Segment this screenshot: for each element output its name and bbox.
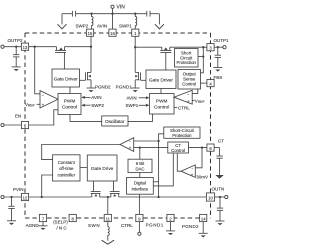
- node: SWN junction: [107, 196, 109, 198]
- wire: SWP2 pin down to switch node and NMOS: [90, 36, 92, 72]
- ground (bar) below PGND2: [199, 222, 208, 238]
- wire: gate driver to PWM (right): [160, 89, 162, 94]
- ground (arrow) below SWN inductor: [102, 240, 114, 244]
- op-amp A1 (right error amp): [174, 90, 192, 104]
- svg-text:15: 15: [88, 31, 93, 36]
- pin 14 PGND2: [200, 214, 207, 221]
- pin 16 AVIN: [109, 29, 116, 36]
- ground (bar) below OUTP2 cap: [12, 67, 21, 71]
- svg-text:Digital: Digital: [134, 181, 146, 186]
- EN terminal: [1, 123, 22, 126]
- svg-text:+: +: [191, 172, 194, 177]
- wire: rail between bottom NMOS pair: [100, 196, 111, 198]
- svg-text:PGND1: PGND1: [146, 223, 164, 228]
- svg-text:off-time: off-time: [59, 166, 74, 171]
- svg-text:Gate Drive: Gate Drive: [91, 166, 114, 171]
- svg-text:AVIN: AVIN: [127, 96, 137, 101]
- svg-text:VREF: VREF: [195, 99, 205, 105]
- SWP2 arrow into left PWM: [81, 104, 90, 107]
- svg-text:CT: CT: [218, 138, 224, 143]
- pin 11 SWN: [104, 214, 111, 221]
- svg-text:Protection: Protection: [172, 133, 192, 138]
- SWP1 arrow into right PWM: [139, 104, 150, 107]
- ground (bar) below PVIN cap: [7, 221, 16, 225]
- svg-text:FBS: FBS: [214, 75, 223, 80]
- AVIN arrow into right PWM: [139, 96, 150, 99]
- svg-text:SWP1: SWP1: [126, 103, 139, 108]
- pin 6 CT: [207, 144, 214, 151]
- OUTP1 terminal: [214, 46, 226, 49]
- capacitor C-in right: [147, 11, 150, 17]
- ground PGND2 (bar): [87, 88, 96, 92]
- svg-text:OUTP2: OUTP2: [8, 38, 24, 43]
- svg-text:14: 14: [201, 216, 206, 221]
- IC boundary dashed box: [25, 33, 211, 218]
- CTRL net stub (right PWM): [174, 106, 177, 108]
- transistor P1 (high-side PMOS right): [160, 47, 171, 70]
- capacitor C-in left: [72, 11, 75, 17]
- VIN terminal: [111, 5, 114, 14]
- wire: CT control to CT pin: [189, 147, 207, 149]
- pin 12 PVIN: [21, 193, 28, 200]
- node: OUTN cap junction: [219, 196, 221, 198]
- svg-text:Constant: Constant: [58, 160, 76, 165]
- svg-text:Control: Control: [62, 105, 77, 110]
- comparator A3 (off-time comparator): [120, 138, 134, 152]
- svg-text:PWM: PWM: [156, 99, 168, 104]
- ground PGND1 (bar): [131, 88, 140, 92]
- capacitor C-outn: [217, 197, 223, 221]
- node: DAC tap on plus input: [139, 146, 141, 148]
- wire: Vref stub: [37, 103, 41, 105]
- pin 5 EN: [21, 121, 28, 128]
- pin 2 PGND1: [167, 214, 174, 221]
- svg-text:SWP1: SWP1: [119, 24, 132, 29]
- node: PVIN cap junction: [10, 196, 12, 198]
- pin 1 SWP1: [132, 29, 139, 36]
- node: minus input junction on OUTN sense line: [157, 140, 159, 142]
- PWM control U2 (left): [58, 94, 81, 115]
- wire: comparator output to constant off-time controller: [42, 145, 120, 160]
- svg-text:SWN: SWN: [88, 223, 100, 228]
- svg-text:Control: Control: [182, 81, 196, 86]
- node: SWP2 switch node: [90, 46, 92, 48]
- oscillator U5: [102, 116, 128, 126]
- pin 8 SELP/NC: [69, 214, 76, 221]
- wire: top input rail: [62, 13, 159, 15]
- output sense control U8: [178, 70, 201, 90]
- node: rail junction at SWP2 inductor: [90, 13, 92, 15]
- svg-text:PGND2: PGND2: [182, 224, 199, 229]
- svg-text:-: -: [42, 92, 44, 98]
- capacitor C-ct external: [214, 148, 223, 175]
- transistor N3 (bottom left NMOS): [91, 181, 101, 197]
- svg-text:Control: Control: [171, 148, 185, 153]
- wire: oscillator to right PWM: [128, 114, 153, 121]
- wire: OUTP2 rail inside: [29, 46, 91, 48]
- wire: DAC to digital interface: [139, 173, 141, 178]
- OUTP2 terminal: [1, 45, 22, 48]
- ground (bar) below PGND1: [166, 222, 175, 236]
- svg-text:CTRL: CTRL: [178, 105, 190, 110]
- constant off-time controller U11: [53, 155, 80, 181]
- wire: OUTP1 tap down to output sense: [201, 47, 204, 73]
- wire: CTRL pin up to digital interface: [138, 194, 140, 214]
- ground (bar) below AGND: [39, 222, 48, 230]
- svg-text:Protection: Protection: [177, 60, 197, 65]
- node: OUTP1 cap junction: [217, 46, 219, 48]
- wire: digital interface to OUTN sense vertical: [153, 181, 158, 183]
- svg-text:-: -: [188, 92, 190, 98]
- wire: FBS to output sense control: [201, 82, 207, 84]
- pin 9 CTRL: [136, 214, 143, 221]
- svg-text:+: +: [187, 99, 190, 104]
- wire: output sense to error amp - input: [192, 89, 198, 94]
- op-amp A2 (left error amp): [40, 91, 58, 108]
- wire: SCP to tap: [198, 56, 203, 58]
- capacitor C-outp2: [13, 47, 19, 67]
- capacitor C-pvin: [8, 197, 14, 221]
- wire: OUTN sense vertical (SCP to OUTN rail): [159, 134, 164, 197]
- node: OUTP1 sense tap: [202, 46, 204, 48]
- ground (bar) below OUTN cap: [216, 221, 225, 225]
- svg-text:PGND1: PGND1: [116, 84, 133, 89]
- svg-text:OUTN: OUTN: [212, 187, 225, 192]
- svg-text:PWM: PWM: [64, 99, 76, 104]
- pin 15 SWP2: [86, 29, 93, 36]
- svg-text:6 Bit: 6 Bit: [136, 161, 145, 166]
- svg-text:AVIN: AVIN: [97, 23, 107, 28]
- wire: OUTP1 rail inside: [135, 46, 207, 48]
- gate driver U3 (left): [52, 69, 80, 87]
- transistor N2 (low-side NMOS left): [80, 72, 92, 88]
- node: SCP tap: [202, 55, 204, 57]
- svg-text:VREF: VREF: [25, 102, 35, 108]
- digital interface U14: [127, 178, 154, 195]
- short-circuit protection U9 (bottom): [164, 127, 200, 138]
- svg-text:(SELP): (SELP): [53, 220, 68, 225]
- svg-text:12: 12: [23, 195, 28, 200]
- wire: Vref stub right: [192, 100, 194, 102]
- svg-text:CTRL: CTRL: [121, 223, 133, 228]
- CT control U10: [168, 142, 189, 153]
- svg-text:/ N C: / N C: [56, 225, 67, 230]
- wire: PVIN rail up to controller: [42, 175, 53, 197]
- svg-text:30mV: 30mV: [196, 175, 208, 180]
- svg-text:Control: Control: [154, 105, 169, 110]
- inductor L3 (SWN external): [108, 222, 109, 241]
- comparator A4 (30mV sync comparator): [181, 165, 195, 178]
- OUTN terminal: [214, 195, 228, 198]
- gate driver U4 (right): [146, 70, 176, 89]
- svg-text:PVIN: PVIN: [13, 187, 24, 192]
- svg-text:interface: interface: [132, 187, 149, 192]
- transistor P2 (high-side PMOS left): [55, 47, 66, 69]
- svg-text:Gate Driver: Gate Driver: [54, 76, 78, 81]
- ground (bar) below OUTP1 cap: [213, 67, 222, 71]
- svg-text:SWP2: SWP2: [91, 103, 104, 108]
- pin 13 OUTP2: [21, 43, 28, 50]
- pin 4 FBS: [207, 80, 214, 87]
- svg-text:+: +: [42, 102, 45, 107]
- svg-text:VIN: VIN: [117, 5, 126, 11]
- transistor N1 (low-side NMOS right): [135, 72, 146, 88]
- ground (arrow) right of input cap: [155, 14, 164, 29]
- short circuit protection U7 (top right): [175, 49, 199, 68]
- wire: VIN down to AVIN pin: [112, 14, 114, 29]
- wire: EN to PWM control: [29, 110, 58, 125]
- AVIN arrow into left PWM: [81, 96, 90, 99]
- svg-text:Oscillator: Oscillator: [105, 119, 125, 124]
- inductor L2 (to SWP2): [92, 14, 94, 29]
- wire: SWN pin up: [107, 197, 109, 214]
- pin 7 AGND: [39, 214, 46, 221]
- svg-text:AVIN: AVIN: [91, 95, 101, 100]
- node: rail junction at SWP1 inductor: [134, 13, 136, 15]
- wire: comparator plus input to CT control: [134, 147, 168, 149]
- svg-text:DAC: DAC: [135, 166, 144, 171]
- PWM control U6 (right): [150, 94, 175, 115]
- wire: CT tap down to 30mV comparator minus: [195, 148, 202, 168]
- node: SWP1 switch node: [134, 46, 136, 48]
- node: feedback tap: [34, 46, 36, 48]
- gate drive U12: [87, 155, 117, 181]
- wire: gate driver to PWM (left): [69, 87, 71, 94]
- capacitor C-outp1: [215, 47, 221, 67]
- svg-text:-: -: [191, 166, 193, 172]
- svg-text:AGND: AGND: [26, 223, 40, 228]
- svg-text:-: -: [129, 139, 131, 145]
- svg-text:11: 11: [106, 216, 111, 221]
- ground (arrow) left of input cap: [58, 14, 67, 29]
- wire: OUTP2 feedback to error amp: [35, 47, 40, 94]
- svg-text:PGND2: PGND2: [95, 84, 111, 89]
- node: CT pin tap: [201, 146, 203, 148]
- wire: OUTN rail: [119, 196, 207, 198]
- svg-text:controller: controller: [57, 173, 75, 178]
- pin 10 OUTN: [206, 193, 214, 201]
- wire: oscillator to left PWM: [70, 115, 102, 122]
- svg-text:OUTP1: OUTP1: [214, 38, 230, 43]
- node: OUTN sense junction: [157, 196, 159, 198]
- svg-text:EN: EN: [15, 114, 21, 119]
- svg-text:SWP2: SWP2: [76, 24, 89, 29]
- svg-text:10: 10: [208, 196, 213, 201]
- svg-text:+: +: [129, 146, 132, 151]
- transistor N4 (bottom right NMOS): [110, 181, 120, 197]
- wire: digital interface to CT control bottom: [153, 153, 173, 186]
- inductor L1 (to SWP1): [135, 14, 137, 29]
- wire: SWP1 pin down to switch node and NMOS: [134, 36, 136, 72]
- svg-text:Gate Driver: Gate Driver: [149, 78, 173, 83]
- svg-text:13: 13: [23, 45, 28, 50]
- node: OUTP2 cap junction: [15, 46, 17, 48]
- svg-text:16: 16: [110, 31, 115, 36]
- wire: comparator minus input: [134, 140, 159, 142]
- node: rail junction at VIN/AVIN: [111, 13, 113, 15]
- ground (arrow) below CT cap: [215, 175, 223, 179]
- wire: 30mV comparator output loop to CT control: [177, 153, 181, 171]
- pin 3 OUTP1: [207, 44, 214, 51]
- 6 bit DAC U13: [128, 159, 152, 172]
- (SELP) / N C label: [53, 220, 68, 231]
- wire: PVIN rail to transistors: [29, 196, 92, 198]
- node: PVIN rail tap: [41, 196, 43, 198]
- wire: controller to gate drive: [80, 166, 87, 168]
- CTRL terminal: [138, 222, 141, 236]
- wire: DAC to plus input: [139, 148, 141, 160]
- PVIN terminal: [1, 195, 22, 198]
